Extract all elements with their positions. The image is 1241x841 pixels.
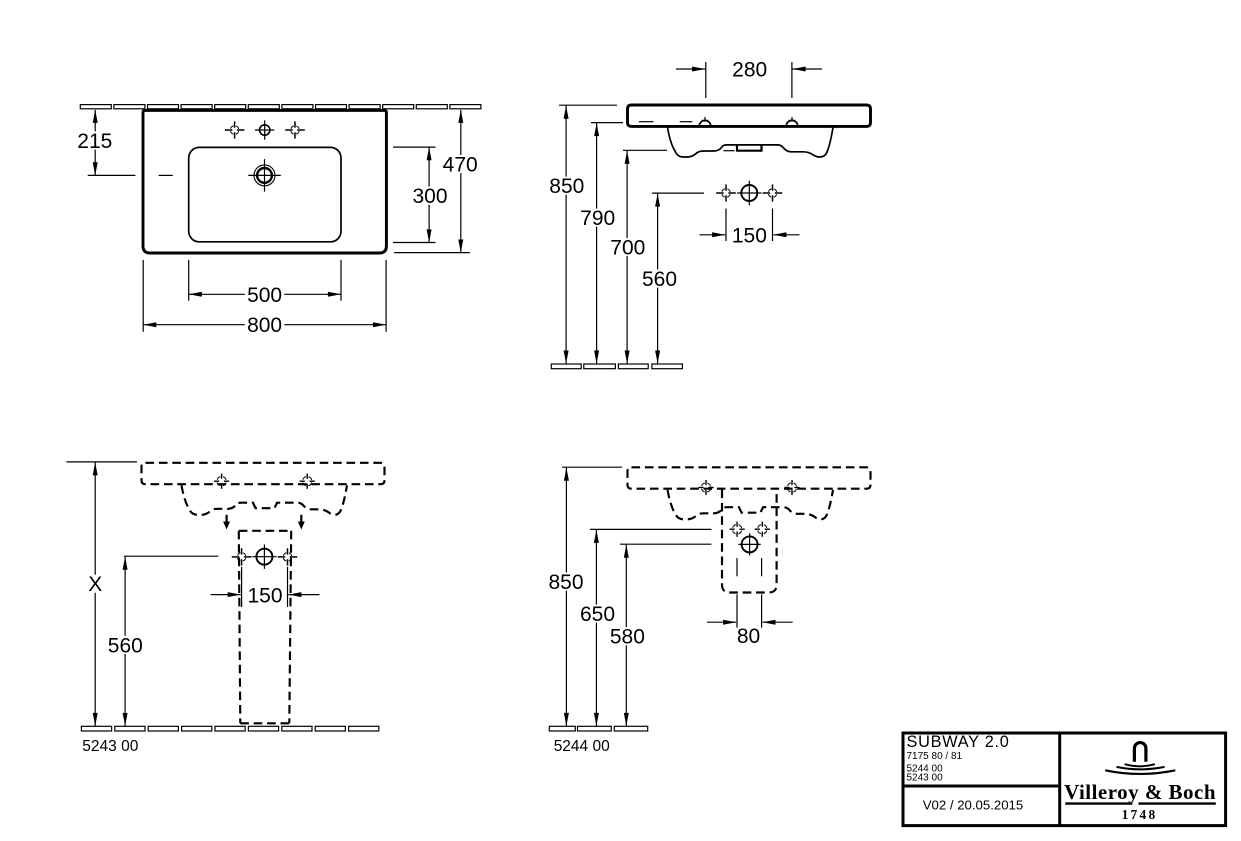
dimension 560 <box>640 194 680 364</box>
svg-text:V02 / 20.05.2015: V02 / 20.05.2015 <box>923 798 1023 813</box>
dimension 215 <box>75 110 115 176</box>
svg-text:580: 580 <box>610 626 645 649</box>
logo wave 2 <box>1117 767 1165 769</box>
fixing bump left <box>699 117 711 126</box>
svg-text:850: 850 <box>548 571 583 594</box>
basin inner bowl outline <box>189 147 341 241</box>
slab hidden centreline <box>639 121 692 123</box>
svg-text:150: 150 <box>247 585 282 608</box>
basin slab outline dashed (view 4) <box>628 467 871 488</box>
extension lines 150 (pedestal) <box>242 567 288 607</box>
dimension 500 <box>189 284 341 307</box>
svg-text:215: 215 <box>77 130 112 153</box>
siphon hole right <box>755 522 770 537</box>
pedestal hole right <box>278 548 298 565</box>
faucet hole left <box>225 121 245 138</box>
extension line 790 top <box>591 122 623 124</box>
wall hole marker right <box>300 474 315 489</box>
svg-text:5244 00: 5244 00 <box>554 738 610 755</box>
wall tile strip <box>80 105 481 109</box>
wall-hole centreline <box>652 192 704 194</box>
svg-text:650: 650 <box>580 603 615 626</box>
bowl underside dashed <box>182 485 348 515</box>
pedestal outline dashed <box>239 531 291 724</box>
dimension X <box>88 462 103 726</box>
dimension 470 <box>440 110 480 253</box>
svg-text:5243 00: 5243 00 <box>907 773 944 784</box>
svg-text:7175 80 / 81: 7175 80 / 81 <box>907 751 963 762</box>
wall hole marker right (view 4) <box>784 480 799 495</box>
svg-text:5243 00: 5243 00 <box>82 738 138 755</box>
drain hole <box>739 533 761 555</box>
bowl underside profile <box>668 128 834 158</box>
title block horizontal divider <box>903 785 1058 788</box>
svg-text:560: 560 <box>108 634 143 657</box>
floor tiles (view 3) <box>81 726 378 731</box>
faucet hole right <box>285 121 305 138</box>
svg-text:800: 800 <box>247 314 282 337</box>
dimension 80 <box>707 622 793 648</box>
svg-text:470: 470 <box>443 154 478 177</box>
logo wave 3 <box>1105 770 1175 774</box>
logo wave 1 <box>1125 764 1155 766</box>
svg-text:560: 560 <box>642 268 677 291</box>
basin outer edge (top view) <box>143 110 386 253</box>
svg-text:X: X <box>88 573 102 596</box>
bowl underside dashed (view 4) <box>668 490 834 520</box>
pedestal hole centre <box>252 545 276 569</box>
drain trap <box>724 145 762 151</box>
fixing arrow right <box>298 515 305 530</box>
dimension 300 <box>410 147 450 242</box>
dimension 150 (pedestal) <box>211 585 320 608</box>
floor tiles (view 2) <box>551 364 682 369</box>
svg-text:150: 150 <box>732 225 767 248</box>
pedestal hole left <box>232 548 252 565</box>
dimension 700 <box>608 151 648 364</box>
svg-text:Villeroy & Boch: Villeroy & Boch <box>1064 780 1216 804</box>
extension line 650 top <box>590 528 712 530</box>
dimension 800 <box>143 314 386 337</box>
dimension 560 pedestal <box>106 557 146 726</box>
wall hole left <box>716 184 736 201</box>
extension line 700 top <box>623 149 667 151</box>
dimension 650 <box>578 530 618 726</box>
extension line 560 top <box>124 555 218 557</box>
svg-text:280: 280 <box>732 59 767 82</box>
drain centreline <box>88 174 173 176</box>
svg-text:300: 300 <box>412 185 447 208</box>
dimension 580 <box>608 545 648 726</box>
svg-text:500: 500 <box>247 284 282 307</box>
extension lines 80 <box>737 558 762 628</box>
svg-text:80: 80 <box>737 625 760 648</box>
extension lines 800 <box>143 260 386 332</box>
dimension 850 (view 4) <box>546 468 586 726</box>
dimension 790 <box>578 123 618 364</box>
extension line 850 top <box>559 104 617 106</box>
semi-pedestal outline dashed <box>722 490 777 593</box>
extension line 470 bottom <box>394 252 470 254</box>
extension line 850 top (view 4) <box>562 466 622 468</box>
logo arch <box>1134 743 1146 762</box>
extension lines 300 <box>393 147 435 242</box>
wall hole right <box>763 184 783 201</box>
svg-text:SUBWAY 2.0: SUBWAY 2.0 <box>907 733 1010 751</box>
dimension 280 <box>676 59 822 82</box>
wall hole centre <box>737 181 761 205</box>
dimension 150 <box>700 225 800 248</box>
extension lines 150 <box>726 209 773 242</box>
svg-text:790: 790 <box>580 207 615 230</box>
svg-text:1748: 1748 <box>1122 807 1158 822</box>
extension lines 280 <box>706 62 792 98</box>
svg-text:700: 700 <box>610 237 645 260</box>
drain (overflow) <box>248 159 281 192</box>
fixing arrow left <box>223 515 230 530</box>
siphon hole left <box>730 522 745 537</box>
title block vertical divider <box>1058 733 1061 826</box>
basin slab outline <box>628 105 871 126</box>
extension line X top <box>66 461 137 463</box>
fixing bump right <box>786 117 798 126</box>
wall hole marker left (view 4) <box>698 480 713 495</box>
extension lines 500 <box>189 260 341 301</box>
svg-text:850: 850 <box>549 175 584 198</box>
faucet hole centre <box>255 120 274 139</box>
logo underline <box>1065 802 1216 804</box>
title block frame <box>903 733 1226 826</box>
wall hole marker left <box>214 474 229 489</box>
dimension 850 <box>547 106 587 364</box>
basin slab outline dashed <box>142 463 385 484</box>
floor tiles (view 4) <box>549 726 647 731</box>
extension line 580 top <box>620 543 712 545</box>
